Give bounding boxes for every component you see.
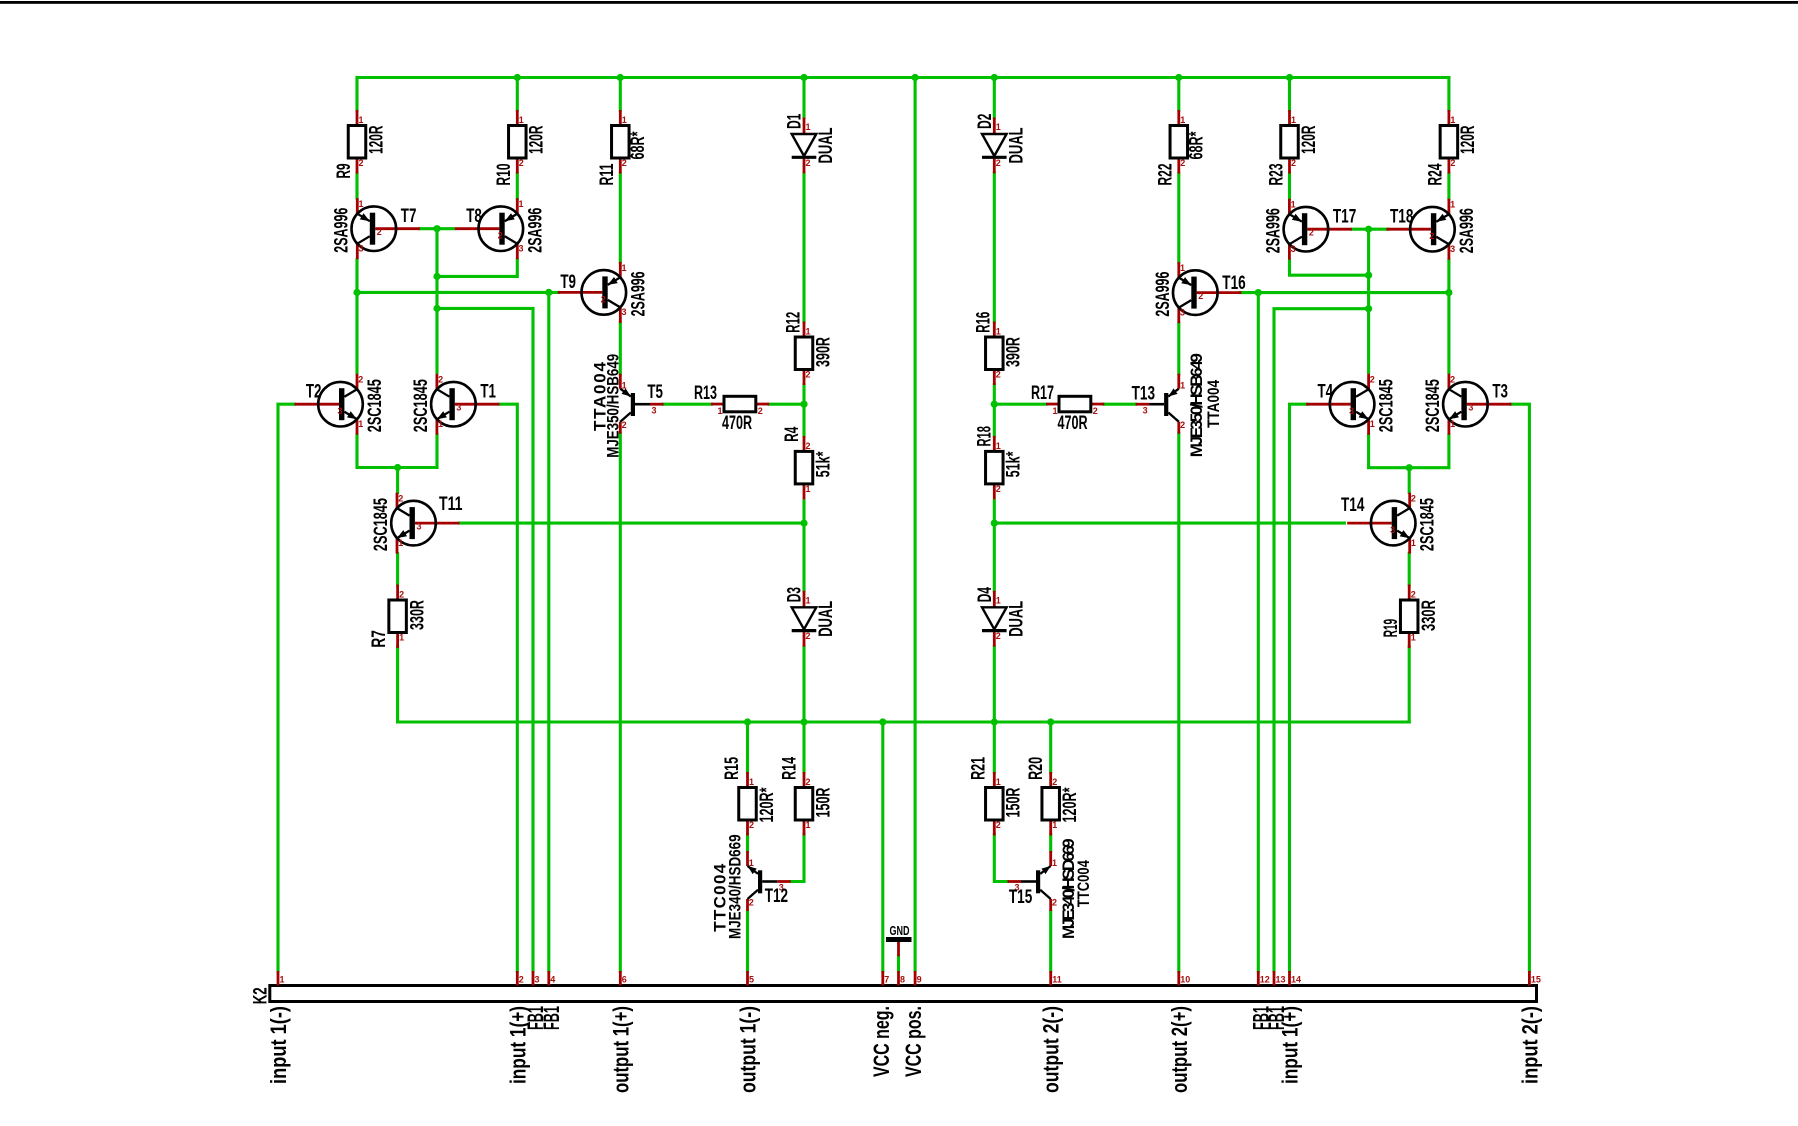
svg-text:D2: D2 (975, 114, 996, 129)
svg-text:R19: R19 (1381, 619, 1402, 637)
svg-text:2: 2 (1291, 158, 1296, 168)
wire R14 to T12 base (791, 835, 804, 882)
svg-text:R17: R17 (1031, 383, 1054, 404)
svg-text:1: 1 (519, 199, 524, 209)
wire T5 base to R13 (664, 403, 712, 406)
svg-text:13: 13 (1276, 975, 1286, 985)
resistor R13 470R (694, 383, 769, 434)
junction node (1365, 272, 1372, 279)
svg-text:1: 1 (749, 777, 754, 787)
wire R18 to T14 base node (993, 501, 996, 523)
svg-text:3: 3 (1143, 405, 1148, 415)
svg-text:2: 2 (399, 590, 404, 600)
svg-text:T3: T3 (1492, 382, 1508, 403)
wire T11 emitter to R7 (396, 554, 399, 585)
svg-text:6: 6 (622, 975, 627, 985)
svg-text:2: 2 (996, 484, 1001, 494)
svg-text:2: 2 (996, 158, 1001, 168)
transistor T14 2SC1845 (1341, 493, 1439, 554)
wire node to D3 (802, 523, 805, 591)
K2 pin 5 output 1(-) (736, 971, 761, 1093)
wire T12 collector to pin5 (746, 912, 749, 971)
svg-text:14: 14 (1291, 975, 1301, 985)
svg-text:3: 3 (337, 406, 342, 416)
svg-text:120R: 120R (1458, 125, 1479, 154)
svg-text:T16: T16 (1222, 273, 1245, 294)
wire R17 node to R17 (994, 403, 1046, 406)
resistor R11 68R* (597, 110, 649, 186)
svg-text:3: 3 (359, 244, 364, 254)
svg-text:150R: 150R (1004, 787, 1025, 817)
svg-text:2: 2 (438, 375, 443, 385)
svg-text:2SC1845: 2SC1845 (365, 379, 386, 432)
K2 pin 7 VCC neg. (869, 971, 894, 1077)
svg-text:2: 2 (996, 370, 1001, 380)
svg-text:1: 1 (519, 115, 524, 125)
wire R20 to T15 emitter (1049, 835, 1052, 852)
svg-text:R24: R24 (1426, 163, 1447, 185)
K2 pin 6 output 1(+) (608, 971, 633, 1093)
svg-text:2SC1845: 2SC1845 (371, 498, 392, 551)
wire T9 collector to T5 emitter (619, 323, 622, 374)
svg-text:2SA996: 2SA996 (628, 271, 649, 316)
wire R15 to T12 emitter (746, 835, 749, 852)
transistor T16 2SA996 (1153, 262, 1246, 323)
svg-text:2SA996: 2SA996 (1457, 208, 1478, 253)
svg-text:2SC1845: 2SC1845 (411, 379, 432, 432)
wire T11 base rail (460, 522, 804, 525)
svg-text:output 2(-): output 2(-) (1039, 1006, 1064, 1093)
junction node (744, 718, 751, 725)
svg-text:2: 2 (1411, 590, 1416, 600)
svg-text:2: 2 (1450, 158, 1455, 168)
wire D2 to R16 (993, 173, 996, 322)
svg-text:DUAL: DUAL (816, 127, 837, 163)
svg-text:470R: 470R (1058, 413, 1088, 434)
svg-text:11: 11 (1052, 975, 1062, 985)
svg-text:3: 3 (1291, 244, 1296, 254)
junction node (353, 289, 360, 296)
wire GND stub (897, 956, 900, 971)
svg-text:1: 1 (622, 115, 627, 125)
wire T9 base rail (357, 291, 559, 294)
svg-text:MJE340/HSD669: MJE340/HSD669 (726, 834, 745, 939)
junction node (879, 718, 886, 725)
resistor R24 120R (1426, 110, 1480, 186)
resistor R17 470R (1031, 383, 1104, 434)
svg-text:2: 2 (498, 231, 503, 241)
resistor R23 120R (1266, 110, 1320, 186)
svg-text:3: 3 (1180, 307, 1185, 317)
wire tail node to T11 collector (396, 468, 399, 493)
svg-text:390R: 390R (813, 337, 834, 367)
svg-text:T15: T15 (1009, 887, 1033, 908)
wire R9 top (355, 78, 358, 111)
svg-text:1: 1 (1291, 200, 1296, 210)
wire bus to R14 (802, 722, 805, 772)
wire T7 T8 base junction (420, 227, 454, 230)
svg-text:1: 1 (1411, 633, 1416, 643)
svg-text:GND: GND (890, 923, 910, 938)
transistor T3 2SC1845 (1423, 374, 1512, 435)
wire T1 base to pin2 (500, 404, 517, 971)
svg-text:T4: T4 (1318, 382, 1334, 403)
svg-text:output 1(+): output 1(+) (608, 1006, 633, 1093)
svg-text:TTC004: TTC004 (1074, 860, 1093, 907)
wire T2 base to pin1 (278, 404, 295, 971)
svg-text:T11: T11 (439, 494, 463, 515)
svg-text:VCC neg.: VCC neg. (869, 1006, 894, 1077)
svg-text:1: 1 (399, 633, 404, 643)
wire VCC pos column (914, 78, 917, 972)
wire T7 collector to T2 collector (355, 260, 358, 373)
wire R15 top (746, 722, 749, 772)
wire R9 to T7 emitter (355, 174, 358, 199)
svg-text:2: 2 (1052, 777, 1057, 787)
connector K2 (270, 986, 1537, 1002)
svg-text:2: 2 (519, 975, 524, 985)
svg-text:2SA996: 2SA996 (525, 208, 546, 253)
transistor T1 2SC1845 (411, 374, 500, 435)
svg-text:R18: R18 (975, 426, 996, 446)
svg-text:2: 2 (758, 406, 763, 416)
svg-text:VCC pos.: VCC pos. (901, 1006, 926, 1077)
wire T16 collector to T13 emitter (1177, 323, 1180, 374)
svg-text:5: 5 (749, 975, 754, 985)
resistor R19 330R (1381, 585, 1440, 649)
svg-text:1: 1 (1411, 538, 1416, 548)
svg-text:1: 1 (1180, 263, 1185, 273)
svg-text:1: 1 (622, 263, 627, 273)
svg-text:1: 1 (1450, 115, 1455, 125)
svg-text:1: 1 (359, 199, 364, 209)
transistor T4 2SC1845 (1306, 374, 1398, 435)
wire R24 top (1447, 78, 1450, 111)
svg-text:2: 2 (377, 227, 382, 237)
diode D4 DUAL (975, 587, 1028, 647)
wire R22 to T16 emitter (1177, 174, 1180, 263)
svg-text:R16: R16 (974, 312, 995, 333)
svg-text:R15: R15 (722, 757, 743, 780)
svg-text:T12: T12 (765, 886, 788, 907)
svg-text:R22: R22 (1156, 164, 1177, 186)
wire R10 top (516, 78, 519, 111)
resistor R10 120R (494, 110, 548, 186)
wire T3 base to pin15 (1511, 404, 1529, 971)
junction node (991, 74, 998, 81)
svg-text:DUAL: DUAL (1007, 127, 1028, 163)
svg-text:3: 3 (1390, 525, 1395, 535)
svg-text:1: 1 (806, 122, 811, 132)
K2 pin 8 GND (899, 971, 906, 986)
wire T14 emitter to R19 (1408, 553, 1411, 585)
junction node (433, 305, 440, 312)
wire node to R18 (993, 404, 996, 436)
svg-text:3: 3 (1450, 244, 1455, 254)
wire FB tap to pin3 column (437, 308, 533, 971)
transistor T12 TTC004/MJE340/HSD669 (711, 834, 791, 939)
svg-text:1: 1 (996, 122, 1001, 132)
junction node (991, 520, 998, 527)
svg-text:DUAL: DUAL (1007, 601, 1028, 637)
svg-text:2: 2 (1180, 420, 1185, 430)
junction node (1365, 305, 1372, 312)
diode D1 DUAL (785, 113, 838, 173)
svg-text:2: 2 (996, 631, 1001, 641)
svg-text:1: 1 (996, 327, 1001, 337)
junction node (1286, 74, 1293, 81)
wire T17 T18 base junction (1352, 228, 1388, 231)
transistor T8 2SA996 (455, 198, 547, 259)
junction node (1445, 289, 1452, 296)
svg-text:2: 2 (1309, 228, 1314, 238)
svg-text:3: 3 (456, 403, 461, 413)
svg-text:T13: T13 (1132, 384, 1155, 405)
svg-text:68R*: 68R* (628, 131, 649, 159)
wire R4 to T11 base node (802, 501, 805, 523)
svg-text:330R: 330R (1419, 600, 1440, 631)
junction node (800, 718, 807, 725)
svg-text:2: 2 (601, 294, 606, 304)
transistor T2 2SC1845 (295, 374, 387, 435)
wire R20 top (1049, 722, 1052, 772)
svg-text:1: 1 (996, 595, 1001, 605)
svg-text:2: 2 (1093, 406, 1098, 416)
svg-text:2: 2 (749, 820, 754, 830)
svg-text:3: 3 (1468, 403, 1473, 413)
svg-text:TTA004: TTA004 (1204, 379, 1223, 427)
K2 pin 11 output 2(-) (1039, 971, 1064, 1093)
svg-text:K2: K2 (250, 987, 271, 1004)
junction node (800, 74, 807, 81)
resistor R16 390R (974, 312, 1025, 385)
wire T16 base to FB pin12 (1257, 293, 1260, 971)
svg-text:R7: R7 (369, 630, 390, 648)
svg-text:1: 1 (1052, 858, 1057, 868)
K2 pin 15 input 2(-) (1517, 971, 1542, 1084)
resistor R14 150R (779, 757, 834, 836)
junction node (991, 401, 998, 408)
svg-text:1: 1 (1052, 820, 1057, 830)
K2 pin 12 FB1 (1248, 971, 1273, 1030)
wire R23 top (1288, 78, 1291, 111)
svg-text:120R*: 120R* (757, 787, 778, 822)
K2 pin 14 input 1(+) (1278, 971, 1303, 1084)
svg-text:2: 2 (1198, 291, 1203, 301)
svg-text:2: 2 (519, 158, 524, 168)
K2 pin 4 FB1 (539, 971, 564, 1030)
svg-text:R11: R11 (597, 163, 618, 185)
svg-text:1: 1 (438, 419, 443, 429)
K2 pin 9 VCC pos. (901, 971, 926, 1077)
svg-text:2: 2 (1180, 158, 1185, 168)
svg-text:1: 1 (749, 858, 754, 868)
K2 pin 10 output 2(+) (1167, 971, 1192, 1093)
wire D1 top (802, 78, 805, 118)
junction node (545, 289, 552, 296)
transistor T11 2SC1845 (371, 493, 463, 554)
svg-text:R21: R21 (969, 757, 990, 780)
svg-text:T8: T8 (466, 206, 482, 227)
wire R19 to VCC neg bus (1408, 647, 1411, 723)
wire T14 base rail (994, 522, 1344, 525)
wire VCC pos top bus (357, 76, 1449, 79)
svg-text:input 2(-): input 2(-) (1517, 1006, 1542, 1084)
svg-text:2: 2 (806, 777, 811, 787)
transistor T5 TTA004/MJE350/HSB649 (591, 354, 664, 458)
svg-text:1: 1 (806, 484, 811, 494)
svg-text:2: 2 (398, 494, 403, 504)
wire T18 collector to T3 collector (1447, 260, 1450, 373)
svg-text:51k*: 51k* (1004, 451, 1025, 477)
wire R22 top (1177, 78, 1180, 111)
svg-text:2: 2 (996, 820, 1001, 830)
svg-text:2SA996: 2SA996 (1153, 272, 1174, 317)
svg-text:4: 4 (550, 975, 555, 985)
K2 pin 1 input 1(-) (266, 971, 291, 1084)
wire T4 base to pin14 (1290, 404, 1308, 971)
svg-text:330R: 330R (407, 600, 428, 630)
wire R11 top (619, 78, 622, 111)
svg-text:1: 1 (1450, 419, 1455, 429)
transistor T7 2SA996 (331, 198, 420, 259)
svg-text:1: 1 (1180, 381, 1185, 391)
wire D1 to R12 (802, 173, 805, 322)
wire base junction down to T1 collector (435, 229, 438, 373)
svg-text:D1: D1 (785, 113, 806, 128)
wire D4 to VCC neg bus (993, 647, 996, 722)
wire VCC neg bus (398, 720, 1410, 723)
svg-text:R4: R4 (782, 426, 803, 441)
wire T3 emitter to tail node (1409, 435, 1449, 468)
K2 pin 2 input 1(+) (505, 971, 530, 1084)
resistor R15 120R* (722, 757, 778, 836)
svg-text:12: 12 (1260, 975, 1270, 985)
svg-text:10: 10 (1180, 975, 1190, 985)
wire R24 to T18 emitter (1447, 174, 1450, 199)
wire R13 to R12 node (769, 403, 804, 406)
svg-text:2SC1845: 2SC1845 (1423, 379, 1444, 432)
resistor R22 68R* (1156, 110, 1208, 186)
diode D2 DUAL (975, 114, 1028, 174)
svg-text:51k*: 51k* (813, 451, 834, 477)
svg-text:1: 1 (1291, 115, 1296, 125)
svg-text:output 2(+): output 2(+) (1167, 1006, 1192, 1093)
wire R23 to T17 emitter (1288, 174, 1291, 199)
svg-text:2: 2 (359, 158, 364, 168)
svg-text:1: 1 (1180, 115, 1185, 125)
wire node to R4 (802, 404, 805, 436)
wire node to D4 (993, 523, 996, 591)
resistor R9 120R (334, 110, 388, 179)
svg-text:T7: T7 (401, 206, 417, 227)
svg-text:1: 1 (806, 595, 811, 605)
wire VCC neg column (881, 722, 884, 971)
wire T5 collector to output pin6 (619, 434, 622, 972)
svg-text:R23: R23 (1266, 164, 1287, 186)
svg-text:1: 1 (996, 441, 1001, 451)
svg-text:R12: R12 (783, 312, 804, 333)
svg-text:3: 3 (417, 522, 422, 532)
junction node (991, 718, 998, 725)
ground GND symbol (886, 923, 912, 956)
svg-text:2SC1845: 2SC1845 (1418, 498, 1439, 551)
svg-text:T9: T9 (560, 272, 576, 293)
svg-text:1: 1 (806, 327, 811, 337)
svg-text:120R: 120R (527, 125, 548, 154)
svg-text:1: 1 (359, 115, 364, 125)
K2 pin 13 FB1 (1264, 971, 1289, 1030)
svg-text:T5: T5 (647, 382, 663, 403)
junction node (1365, 226, 1372, 233)
junction node (800, 401, 807, 408)
wire D2 top (993, 78, 996, 118)
wire T4 emitter to tail node (1369, 435, 1410, 468)
transistor T9 2SA996 (558, 262, 650, 323)
resistor R18 51k* (975, 426, 1025, 499)
junction node (912, 74, 919, 81)
wire R17 to T13 base (1104, 403, 1136, 406)
svg-text:T2: T2 (306, 382, 322, 403)
svg-text:1: 1 (358, 419, 363, 429)
frame top border line (0, 1, 1798, 4)
resistor R21 150R (969, 757, 1025, 836)
svg-text:T14: T14 (1341, 495, 1365, 516)
svg-text:2SA996: 2SA996 (331, 208, 352, 253)
svg-text:2: 2 (749, 898, 754, 908)
junction node (1406, 464, 1413, 471)
svg-text:8: 8 (900, 975, 905, 985)
wire tail node to T14 collector (1408, 468, 1411, 493)
svg-text:3: 3 (652, 405, 657, 415)
svg-text:3: 3 (622, 307, 627, 317)
svg-text:1: 1 (996, 777, 1001, 787)
wire T13 collector to output pin10 (1177, 434, 1180, 972)
svg-text:7: 7 (884, 975, 889, 985)
wire D3 to VCC neg bus (802, 647, 805, 722)
svg-text:T18: T18 (1390, 207, 1413, 228)
svg-text:2: 2 (358, 375, 363, 385)
svg-text:3: 3 (519, 244, 524, 254)
wire T8 collector to base rail (437, 260, 517, 277)
resistor R7 330R (369, 585, 429, 649)
svg-text:2: 2 (806, 631, 811, 641)
junction node (1255, 289, 1262, 296)
svg-text:3: 3 (1349, 406, 1354, 416)
wire R16 to node (993, 385, 996, 405)
svg-text:15: 15 (1531, 975, 1541, 985)
svg-text:2SC1845: 2SC1845 (1377, 379, 1398, 432)
svg-text:D4: D4 (975, 587, 996, 602)
svg-text:390R: 390R (1004, 337, 1025, 367)
svg-text:2: 2 (1429, 231, 1434, 241)
transistor T17 2SA996 (1263, 199, 1356, 260)
svg-text:2: 2 (622, 158, 627, 168)
svg-text:120R: 120R (366, 125, 387, 154)
svg-text:D3: D3 (785, 587, 806, 602)
junction node (1047, 718, 1054, 725)
wire T9 base to FB pin4 (547, 292, 550, 971)
transistor T15 MJE340/HSD669/TTC004 (1008, 838, 1094, 939)
wire T2 emitter to tail node (357, 435, 398, 468)
wire R7 to VCC neg bus (398, 647, 804, 723)
junction node (800, 520, 807, 527)
svg-text:input 1(+): input 1(+) (1278, 1006, 1303, 1084)
svg-text:150R: 150R (813, 787, 834, 817)
resistor R20 120R* (1026, 757, 1081, 836)
svg-text:R10: R10 (494, 164, 515, 186)
svg-text:R14: R14 (779, 757, 800, 780)
